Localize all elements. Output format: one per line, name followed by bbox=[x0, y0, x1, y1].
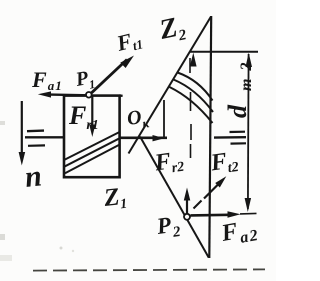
spiral tooth arc 3 bbox=[170, 87, 213, 123]
bearing (left support) short lower line bbox=[28, 144, 45, 147]
node P2 circle bbox=[184, 214, 190, 220]
vertical drop line from cone generator to axis bbox=[163, 100, 165, 137]
force Ft1 arrowhead bbox=[120, 56, 134, 69]
bearing (left support) long line bbox=[25, 136, 64, 138]
dash-dot centerline of gear2 rim bbox=[190, 58, 191, 158]
cone base vertical line bbox=[209, 16, 211, 258]
dm2 top arrowhead bbox=[246, 53, 253, 67]
force Fa2 arrowhead bbox=[228, 211, 241, 218]
force Fr2 arrow shaft bbox=[186, 198, 188, 213]
force Ft1 arrow shaft bbox=[91, 60, 128, 94]
tooth line 3 (bottom diagonal) bbox=[65, 145, 120, 174]
arrow n head bbox=[19, 152, 26, 166]
bottom dashed baseline bbox=[33, 269, 265, 270]
force Ft2 arrowhead bbox=[215, 176, 226, 187]
top extension line (dm2 upper) bbox=[190, 51, 259, 53]
force Fa1 arrowhead bbox=[38, 91, 51, 97]
spiral tooth arc 1 bbox=[178, 73, 213, 101]
right bearing short upper bbox=[230, 131, 246, 134]
extension line right of Fa2 bbox=[240, 212, 257, 215]
gear 1 pinion rectangle bbox=[64, 96, 120, 178]
right bearing long line (gear1 axis right) bbox=[214, 136, 246, 139]
force Fa1 arrow shaft bbox=[50, 93, 89, 96]
gear 1 pinion rectangle top-edge overshoot bbox=[119, 94, 123, 97]
tooth line 1 (top diagonal) bbox=[64, 132, 120, 160]
force Fr1 arrow shaft bbox=[91, 96, 93, 127]
node P1 circle bbox=[86, 92, 92, 98]
bearing (left support) short upper line bbox=[27, 129, 44, 132]
tooth line 2 (middle diagonal) bbox=[64, 138, 120, 167]
dm2 bottom arrowhead bbox=[245, 198, 252, 212]
right bearing short lower bbox=[231, 142, 247, 145]
spiral tooth arc 2 bbox=[174, 80, 214, 113]
dimension dm2 vertical line bbox=[247, 54, 250, 209]
axis arrowhead at Ok bbox=[153, 135, 165, 141]
force Fa2 arrow shaft bbox=[191, 214, 230, 217]
gear1 axis segment to Ok with arrowhead bbox=[120, 137, 167, 140]
cone generator B (Ok down to bottom vertex through P2) bbox=[140, 137, 209, 258]
faint scan speckles bbox=[60, 247, 63, 250]
force Ft2 arrow shaft bbox=[204, 183, 220, 199]
force Fr1 arrowhead bbox=[89, 125, 95, 138]
scan smudge bottom-left corner bbox=[0, 255, 12, 261]
force Fr2 arrowhead bbox=[184, 188, 191, 201]
arrow n (rotation) shaft bbox=[21, 101, 23, 155]
svg-text:n: n bbox=[23, 159, 43, 194]
scan smudge left edge upper bbox=[0, 121, 5, 125]
scan smudge left edge lower bbox=[0, 234, 5, 240]
cone generator A (apex to lower-left past Ok) bbox=[129, 17, 212, 154]
up arrowhead on rim centerline bbox=[190, 53, 197, 67]
force Ft2 dashed lead bbox=[194, 201, 202, 209]
